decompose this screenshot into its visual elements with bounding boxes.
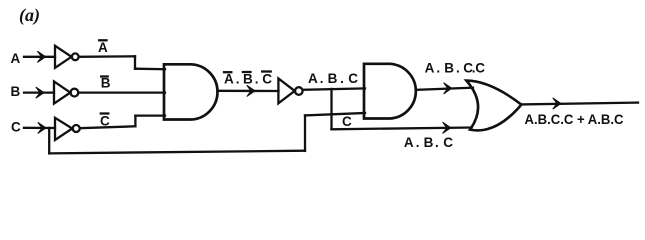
svg-text:.: . [255,71,259,86]
overbar on C of AbarBbarCbar [262,70,271,72]
node final output label [525,112,624,127]
overbar on B of AbarBbarCbar [243,71,251,73]
svg-text:.: . [320,71,324,86]
svg-text:B: B [444,60,454,75]
wire Abar [79,55,135,58]
wire C branch vertical [48,128,50,153]
inverter U2 (B) [54,81,70,103]
inverter U4 [278,79,294,104]
wire Bbar into gate G1 [79,91,165,93]
overbar Cbar [101,112,109,114]
AND gate G2 [364,64,416,119]
node Bbar label [101,75,111,90]
label (a) [19,5,40,26]
input label C [11,119,21,134]
overbar on A of AbarBbarCbar [224,71,231,73]
svg-text:A: A [224,71,234,86]
wire C rise toward gate G2 [304,115,306,150]
svg-text:A: A [98,40,108,55]
wire G2 output to OR gate [418,88,474,90]
svg-text:C: C [262,71,272,86]
arrow on ABC branch [443,122,451,133]
wire Cbar [80,126,135,128]
overbar Abar [99,39,106,41]
wire Cbar into gate G1 [135,114,165,116]
svg-text:C: C [11,119,21,134]
svg-text:(a): (a) [19,5,40,26]
node AbarBbarCbar label [224,71,272,86]
OR gate G3 [466,81,521,131]
svg-text:B: B [11,84,21,99]
svg-text:A.B.C.C + A.B.C: A.B.C.C + A.B.C [525,112,624,127]
inverter U3 (C) [55,118,72,140]
wire Abar into gate G1 [135,68,165,71]
node Abar label [98,40,108,55]
wire OR output [521,103,638,105]
svg-text:A: A [11,51,21,66]
node Cbar label [100,113,110,128]
wire ABC branch to OR gate [332,128,472,130]
bubble U1 [72,53,79,60]
wire junction drop [330,89,332,129]
svg-text:.: . [236,71,240,86]
svg-text:A: A [425,60,435,75]
node ABC bottom label [404,135,453,150]
svg-text:.: . [436,60,440,75]
svg-text:.: . [435,135,439,150]
wire A input [24,56,55,58]
bubble U2 [71,89,79,97]
svg-text:C: C [443,135,453,150]
svg-text:C: C [342,114,352,129]
node C label at gate G2 [342,114,352,129]
svg-text:B: B [328,71,338,86]
svg-text:A: A [404,135,414,150]
svg-text:.: . [416,135,420,150]
bubble U3 [73,125,80,132]
svg-text:B: B [424,135,434,150]
svg-text:C: C [475,60,485,75]
arrow G2 output [444,83,452,94]
wire C input [24,127,55,129]
arrow on C input [38,122,46,133]
AND gate G1 [164,64,217,119]
inverter U1 (A) [55,46,72,68]
svg-text:.: . [456,60,460,75]
arrow G1 output [247,85,255,96]
arrow OR output [553,98,561,109]
node ABC label [308,71,358,86]
arrow on B input [36,87,44,98]
wire Abar jog vertical [134,56,136,68]
wire Cbar jog vertical [134,116,136,127]
svg-text:B: B [243,71,253,86]
wire G1 output [218,90,279,92]
input label B [11,84,21,99]
wire B input [24,91,54,93]
svg-text:.: . [340,71,344,86]
node ABCC label [425,60,486,75]
arrow on A input [37,51,45,62]
wire C bottom run [49,151,305,154]
svg-text:A: A [308,71,318,86]
wire C into gate G2 [305,113,365,115]
wire U4 output into gate G2 [303,88,365,89]
svg-text:C: C [348,71,358,86]
bubble U4 [295,87,303,95]
input label A [11,51,21,66]
overbar Bbar [101,75,108,77]
